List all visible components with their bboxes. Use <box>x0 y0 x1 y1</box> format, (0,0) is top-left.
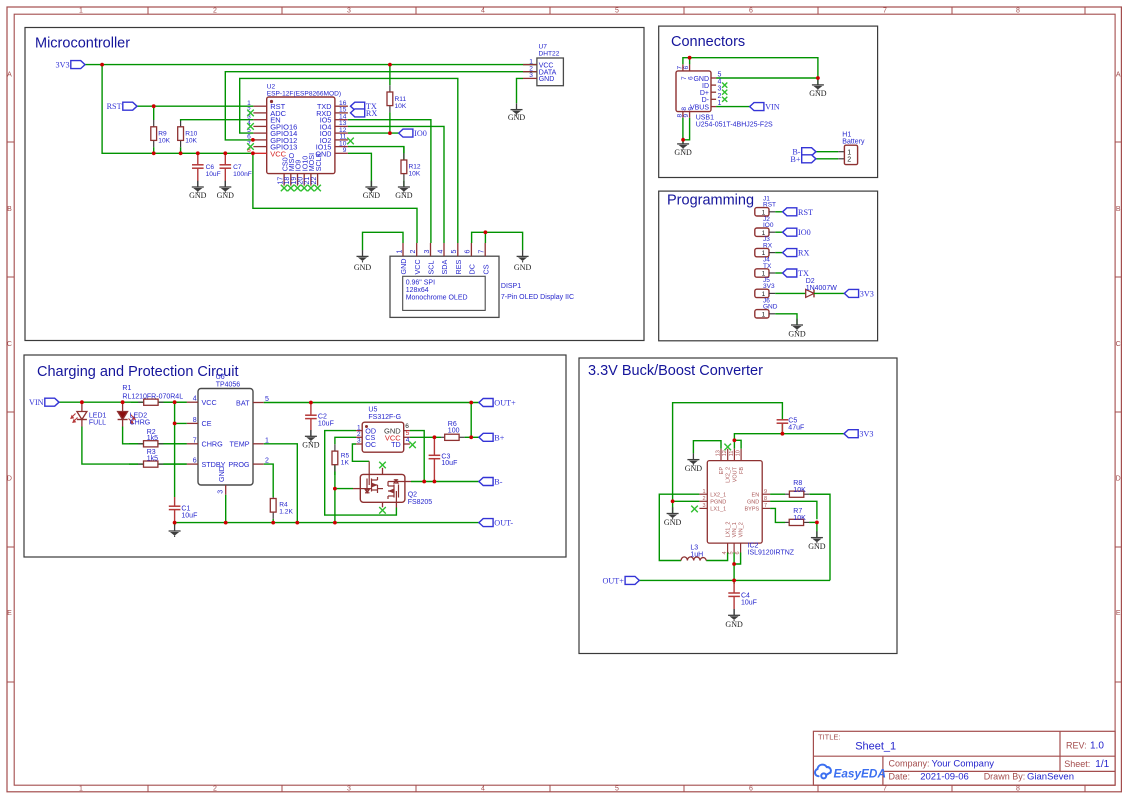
junction <box>469 401 473 405</box>
wire U5 OC to Q2 gate <box>352 444 369 461</box>
net flag IO0 <box>399 129 413 137</box>
wire USB shield to GND <box>683 58 818 78</box>
svg-text:GND: GND <box>363 191 381 200</box>
svg-text:GND: GND <box>664 518 682 527</box>
svg-text:5: 5 <box>729 551 735 554</box>
svg-text:1N4007W: 1N4007W <box>806 285 838 292</box>
svg-text:VCC: VCC <box>413 259 422 274</box>
U2 bottom no-connects <box>281 185 288 192</box>
svg-text:CHRG: CHRG <box>202 440 224 449</box>
svg-text:6: 6 <box>405 423 409 430</box>
svg-text:SDA: SDA <box>440 260 449 275</box>
svg-text:4: 4 <box>193 396 197 403</box>
wire L3 to LX1_2 <box>706 553 727 561</box>
capacitor C6 <box>192 153 221 187</box>
svg-text:3V3: 3V3 <box>860 289 874 298</box>
net flag TX <box>783 269 797 277</box>
svg-text:TEMP: TEMP <box>230 440 250 449</box>
svg-text:12: 12 <box>722 450 728 456</box>
svg-text:RES: RES <box>454 260 463 275</box>
svg-text:3: 3 <box>357 438 361 445</box>
svg-text:RX: RX <box>366 109 377 118</box>
ground PGND <box>664 507 682 527</box>
op-amp U2 ESP-12F body <box>267 83 341 173</box>
junction <box>223 151 227 155</box>
svg-text:1: 1 <box>79 8 83 15</box>
svg-text:FS312F-G: FS312F-G <box>368 414 401 421</box>
net flag VIN charging <box>45 398 59 406</box>
ground under C7 <box>217 181 235 200</box>
wire U5 VCC through R6 <box>410 436 441 438</box>
wire GND pin8 to R7 junction <box>770 501 817 519</box>
svg-text:Microcontroller: Microcontroller <box>35 35 130 51</box>
svg-text:C: C <box>7 341 12 348</box>
svg-text:1/1: 1/1 <box>1095 759 1109 770</box>
junction <box>732 579 736 583</box>
svg-text:R4: R4 <box>279 502 288 509</box>
svg-text:3V3: 3V3 <box>763 283 775 290</box>
svg-text:R1: R1 <box>122 385 131 392</box>
ground under U2 pin9 <box>363 181 381 200</box>
wire J1 to net flag <box>775 211 782 213</box>
wire C5 bottom to 3V3 line <box>781 423 783 434</box>
svg-text:B: B <box>7 206 12 213</box>
wire DHT22 GND to ground <box>517 78 524 103</box>
net flag B+ <box>802 155 816 163</box>
junction <box>152 151 156 155</box>
svg-text:6: 6 <box>688 76 695 80</box>
wire B- to H1 <box>816 151 838 153</box>
svg-text:ESP-12F(ESP8266MOD): ESP-12F(ESP8266MOD) <box>267 90 341 97</box>
svg-text:9: 9 <box>688 107 695 111</box>
svg-text:13: 13 <box>716 450 722 456</box>
svg-text:R11: R11 <box>395 96 407 103</box>
svg-text:U5: U5 <box>368 407 377 414</box>
no-connect USB D- <box>722 97 727 102</box>
junction <box>173 422 177 426</box>
wire U5 CS to R5 <box>335 437 356 444</box>
svg-text:1.2K: 1.2K <box>279 509 293 516</box>
svg-text:RL1210FR-070R4L: RL1210FR-070R4L <box>122 393 183 400</box>
svg-text:R5: R5 <box>341 453 350 460</box>
svg-text:OUT-: OUT- <box>494 519 513 528</box>
svg-text:10K: 10K <box>409 171 421 178</box>
svg-text:6: 6 <box>749 786 753 793</box>
junction <box>100 63 104 67</box>
svg-text:D: D <box>7 476 12 483</box>
no-connect Q2 top <box>379 462 386 469</box>
svg-text:3: 3 <box>347 786 351 793</box>
svg-text:1k5: 1k5 <box>147 435 158 442</box>
wire R5 to OUT- row <box>334 465 336 523</box>
svg-text:4: 4 <box>481 786 485 793</box>
wire D2 to 3V3 flag <box>814 292 844 294</box>
svg-text:7: 7 <box>883 786 887 793</box>
junction <box>251 138 255 142</box>
svg-text:Drawn By:: Drawn By: <box>984 772 1026 782</box>
junction <box>433 480 437 484</box>
svg-text:10uF: 10uF <box>741 600 757 607</box>
svg-text:PROG: PROG <box>228 460 250 469</box>
ground under R12 <box>395 181 413 200</box>
svg-text:DC: DC <box>468 264 477 274</box>
section box Connectors <box>659 26 878 177</box>
svg-text:U6: U6 <box>216 374 225 381</box>
wire LED2 to R2 to CHRG <box>123 427 187 444</box>
svg-text:10uF: 10uF <box>441 460 457 467</box>
net flag VIN <box>750 103 764 111</box>
EasyEDA logo <box>815 765 831 779</box>
svg-text:VOUT: VOUT <box>732 466 738 482</box>
svg-text:11: 11 <box>729 451 735 457</box>
svg-text:Connectors: Connectors <box>671 34 745 50</box>
junction <box>815 521 819 525</box>
svg-text:LX2_2: LX2_2 <box>726 467 732 483</box>
svg-text:VIN_2: VIN_2 <box>739 522 745 537</box>
svg-text:2: 2 <box>213 786 217 793</box>
svg-text:4: 4 <box>718 79 722 86</box>
junction <box>433 435 437 439</box>
junction <box>152 104 156 108</box>
wire R7 junction to ground <box>816 522 818 537</box>
svg-text:GND: GND <box>399 259 408 275</box>
no-connect IO2 <box>347 138 354 145</box>
svg-text:9: 9 <box>683 114 690 118</box>
svg-text:PGND: PGND <box>710 500 726 506</box>
wire 3V3 down to VCC row <box>102 65 253 154</box>
wire BYPS to R7 <box>770 508 785 522</box>
wire U6 GND to OUT- row <box>225 495 227 523</box>
svg-text:EasyEDA: EasyEDA <box>834 767 886 781</box>
inductor L3 <box>681 545 706 561</box>
svg-text:TITLE:: TITLE: <box>818 733 841 742</box>
svg-text:7: 7 <box>479 250 486 254</box>
svg-text:VCC: VCC <box>270 149 286 158</box>
svg-text:VIN: VIN <box>29 398 44 407</box>
svg-text:B+: B+ <box>494 433 504 442</box>
svg-text:Sheet_1: Sheet_1 <box>855 741 896 753</box>
net flag B- <box>802 148 816 156</box>
svg-text:3: 3 <box>718 86 722 93</box>
svg-text:SCLK: SCLK <box>314 152 323 171</box>
svg-text:Your Company: Your Company <box>932 758 995 769</box>
svg-text:B+: B+ <box>790 155 800 164</box>
svg-text:VIN_1: VIN_1 <box>732 522 738 537</box>
svg-text:3: 3 <box>529 72 533 79</box>
svg-text:7: 7 <box>883 8 887 15</box>
svg-text:7: 7 <box>193 437 197 444</box>
no-connect Q2 bottom <box>379 507 386 514</box>
net flag 3V3 programming <box>844 289 858 297</box>
wire pin13 to GND <box>693 441 721 454</box>
svg-text:8: 8 <box>764 496 767 502</box>
svg-text:IO0: IO0 <box>798 228 811 237</box>
capacitor C1 <box>169 497 198 523</box>
svg-text:FULL: FULL <box>89 420 106 427</box>
svg-text:4: 4 <box>481 8 485 15</box>
svg-text:5: 5 <box>718 72 722 79</box>
junction <box>173 400 177 404</box>
svg-text:10uF: 10uF <box>181 513 197 520</box>
resistor R11 <box>387 65 407 134</box>
wire U2 GND pin9 to ground <box>348 153 372 187</box>
junction <box>173 521 177 525</box>
wire LX2_1 loop to L3 <box>659 494 699 560</box>
capacitor C4 <box>728 580 757 615</box>
svg-text:4: 4 <box>406 437 410 444</box>
wire Q2 left pin to R5 line <box>335 488 353 490</box>
svg-text:1K: 1K <box>341 460 350 467</box>
svg-text:FS8205: FS8205 <box>408 499 433 506</box>
svg-text:10K: 10K <box>185 138 197 145</box>
ground USB shield <box>809 79 827 98</box>
junction <box>80 400 84 404</box>
svg-text:IO0: IO0 <box>414 129 427 138</box>
svg-text:1: 1 <box>529 58 533 65</box>
resistor R7 <box>785 508 817 525</box>
wire RST flag to U2 pin1 <box>137 105 253 107</box>
capacitor C2 <box>305 403 334 437</box>
ground under C6 <box>189 181 207 200</box>
op-amp U6 TP4056 <box>187 374 269 495</box>
svg-text:1: 1 <box>396 250 403 254</box>
svg-text:C6: C6 <box>206 164 215 171</box>
no-connect IC2 pin12 <box>724 444 731 451</box>
svg-text:10uF: 10uF <box>318 420 334 427</box>
wire USB pins 8,9 to GND <box>682 118 684 144</box>
svg-text:2: 2 <box>265 458 269 465</box>
svg-text:TX: TX <box>798 269 809 278</box>
svg-text:OUT+: OUT+ <box>602 576 624 585</box>
junction <box>309 401 313 405</box>
resistor R4 <box>270 497 293 523</box>
svg-text:VCC: VCC <box>202 398 217 407</box>
svg-text:6: 6 <box>683 66 690 70</box>
net flag TX <box>351 102 365 110</box>
junction <box>732 562 736 566</box>
svg-text:5: 5 <box>615 8 619 15</box>
wire OUT+ row <box>639 579 830 581</box>
U2 right pins <box>315 100 347 158</box>
svg-text:3: 3 <box>424 250 431 254</box>
svg-text:GND: GND <box>302 440 320 449</box>
svg-text:GND: GND <box>693 76 709 83</box>
svg-text:7: 7 <box>764 503 767 509</box>
svg-text:Charging and Protection Circui: Charging and Protection Circuit <box>37 364 239 380</box>
wire U5 GND to B- row <box>410 431 424 482</box>
ground J6 <box>788 319 806 339</box>
svg-text:8: 8 <box>1016 8 1020 15</box>
connector H1 Battery <box>838 132 865 165</box>
svg-text:OUT+: OUT+ <box>494 399 516 408</box>
connector J5 <box>755 277 775 298</box>
wire VIN to R1 to U6 VCC <box>59 401 187 403</box>
svg-text:VIN: VIN <box>765 103 780 112</box>
svg-text:Sheet:: Sheet: <box>1064 759 1090 769</box>
svg-text:SCL: SCL <box>427 261 436 275</box>
svg-text:Date:: Date: <box>889 772 911 782</box>
svg-text:2: 2 <box>213 8 217 15</box>
junction <box>333 487 337 491</box>
wire U2 IO5 to OLED SCL <box>348 120 431 243</box>
svg-text:5: 5 <box>265 396 269 403</box>
svg-text:BAT: BAT <box>236 398 250 407</box>
svg-text:2: 2 <box>410 250 417 254</box>
net flag 3V3 <box>71 61 85 69</box>
wire PGND to IC2 <box>673 500 700 502</box>
junction <box>816 76 820 80</box>
svg-text:U254-051T-4BHJ25-F2S: U254-051T-4BHJ25-F2S <box>696 121 773 128</box>
wire CE junction down to C1 <box>174 423 176 497</box>
connector J6 <box>755 297 778 318</box>
wire LED1 to R3 to STDBY <box>82 427 187 465</box>
wire C1 to ground <box>174 523 176 526</box>
junction <box>295 521 299 525</box>
wire U2 IO0 to IO0 flag <box>348 132 399 134</box>
svg-text:8: 8 <box>1016 786 1020 793</box>
op-amp U5 FS312F-G <box>356 407 410 453</box>
ground C4 <box>725 609 743 629</box>
net flag RX <box>351 109 365 117</box>
net flag RX <box>783 249 797 257</box>
svg-text:C5: C5 <box>788 418 797 425</box>
junction <box>333 521 337 525</box>
wire Q2 to B- flag <box>411 481 479 483</box>
svg-text:3V3: 3V3 <box>859 430 873 439</box>
svg-text:GND: GND <box>763 304 778 311</box>
net flag B- <box>479 478 493 486</box>
wire J3 to net flag <box>775 252 782 254</box>
display DISP1 OLED <box>390 243 574 317</box>
net flag IO0 <box>783 228 797 236</box>
wire VIN pins join <box>733 553 735 581</box>
svg-text:3: 3 <box>217 490 224 494</box>
svg-text:D2: D2 <box>806 278 815 285</box>
wire R1 junction down to CE <box>175 402 187 423</box>
title block <box>813 731 1115 785</box>
svg-text:BYPS: BYPS <box>745 507 760 513</box>
wire U2 IO15 to R12 <box>348 147 404 162</box>
net flag OUT+ <box>479 399 493 407</box>
LED LED1 FULL <box>71 402 107 426</box>
svg-text:6: 6 <box>465 250 472 254</box>
no-connect USB ID <box>722 83 727 88</box>
svg-text:RST: RST <box>798 208 813 217</box>
wire USB GND pin5 <box>716 78 818 85</box>
wire BAT to OUT+ <box>264 402 479 404</box>
svg-text:IO0: IO0 <box>763 222 774 229</box>
svg-text:8: 8 <box>193 417 197 424</box>
ground under C1 <box>169 525 181 537</box>
net flag RST <box>783 208 797 216</box>
svg-text:10K: 10K <box>793 515 806 522</box>
wire OUT- row <box>175 522 479 524</box>
svg-text:CHRG: CHRG <box>130 420 151 427</box>
svg-text:D: D <box>1116 476 1121 483</box>
wire J2 to net flag <box>775 231 782 233</box>
junction <box>781 432 785 436</box>
capacitor C7 <box>220 153 252 187</box>
junction <box>681 138 685 142</box>
svg-text:10K: 10K <box>158 138 170 145</box>
svg-text:B: B <box>1116 206 1121 213</box>
svg-text:IC2: IC2 <box>748 543 759 550</box>
svg-text:GND: GND <box>808 542 826 551</box>
svg-text:D-: D- <box>702 97 710 104</box>
wire U2 EN to R10 <box>181 120 254 121</box>
svg-text:100nF: 100nF <box>233 171 252 178</box>
svg-text:22: 22 <box>311 177 318 185</box>
svg-text:1.0: 1.0 <box>1090 741 1104 752</box>
section box Programming <box>659 191 878 341</box>
wire U2 GPIO14 to OLED RES <box>240 78 458 243</box>
connector J4 <box>755 257 775 278</box>
section box Microcontroller <box>25 28 644 341</box>
svg-text:GND: GND <box>514 263 532 272</box>
svg-text:GND: GND <box>674 148 692 157</box>
svg-text:128x64: 128x64 <box>406 287 429 294</box>
resistor R3 <box>129 449 187 467</box>
svg-text:CE: CE <box>202 419 212 428</box>
svg-text:7-Pin OLED Display IIC: 7-Pin OLED Display IIC <box>501 294 574 301</box>
svg-text:D+: D+ <box>700 90 709 97</box>
junction <box>469 435 473 439</box>
resistor R1 <box>122 385 186 405</box>
wire PGND ground stub <box>672 501 674 513</box>
svg-text:LX2_1: LX2_1 <box>710 492 726 498</box>
svg-text:3: 3 <box>347 8 351 15</box>
svg-text:B-: B- <box>494 478 502 487</box>
wire U2 GPIO12 to DHT22 DATA <box>225 72 537 140</box>
svg-text:RST: RST <box>107 102 122 111</box>
net flag OUT- <box>479 519 493 527</box>
svg-text:TD: TD <box>391 440 401 449</box>
resistor R5 <box>332 444 350 475</box>
svg-text:R9: R9 <box>158 131 167 138</box>
svg-text:1: 1 <box>762 311 766 318</box>
resistor R10 <box>178 121 198 153</box>
svg-text:6: 6 <box>749 8 753 15</box>
svg-text:RST: RST <box>763 202 776 209</box>
svg-text:LX1_1: LX1_1 <box>710 507 726 513</box>
svg-text:9: 9 <box>343 147 347 154</box>
svg-text:GND: GND <box>354 263 372 272</box>
wire J6 to ground <box>775 314 797 325</box>
svg-text:LED2: LED2 <box>130 413 148 420</box>
svg-text:E: E <box>1116 610 1121 617</box>
svg-text:2: 2 <box>718 93 722 100</box>
ground R7 <box>808 531 826 551</box>
no-connect U5 TD <box>409 442 416 449</box>
op-amp IC2 ISL9120IRTNZ <box>699 449 794 557</box>
svg-text:10uF: 10uF <box>206 171 221 178</box>
svg-text:U2: U2 <box>267 83 276 90</box>
svg-text:6: 6 <box>193 458 197 465</box>
svg-text:10: 10 <box>736 450 742 456</box>
svg-text:GND: GND <box>685 464 703 473</box>
svg-text:4: 4 <box>437 250 444 254</box>
net flag B+ <box>479 433 493 441</box>
wire J5 to diode D2 <box>775 292 806 294</box>
wire R6 to B+ and OUT+ <box>471 436 479 438</box>
net flag 3V3 buck <box>844 430 858 438</box>
svg-text:GND: GND <box>809 89 827 98</box>
svg-text:1k5: 1k5 <box>147 456 158 463</box>
svg-text:TP4056: TP4056 <box>216 381 241 388</box>
wire USB VBUS to VIN <box>716 106 750 108</box>
svg-text:GianSeven: GianSeven <box>1027 772 1074 783</box>
svg-text:DISP1: DISP1 <box>501 283 521 290</box>
